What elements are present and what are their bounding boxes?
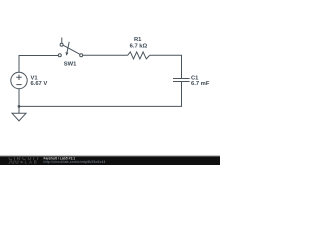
svg-text:LAB: LAB: [25, 160, 39, 165]
svg-text:http://circuitlab.com/c/mtp8k9: http://circuitlab.com/c/mtp8k93c6x44: [44, 160, 106, 164]
svg-text:6.67 V: 6.67 V: [31, 81, 48, 87]
svg-text:6.7 mF: 6.7 mF: [191, 81, 210, 87]
svg-text:SW1: SW1: [64, 62, 77, 68]
svg-text:R1: R1: [134, 37, 142, 43]
svg-text:6.7 kΩ: 6.7 kΩ: [130, 43, 148, 49]
